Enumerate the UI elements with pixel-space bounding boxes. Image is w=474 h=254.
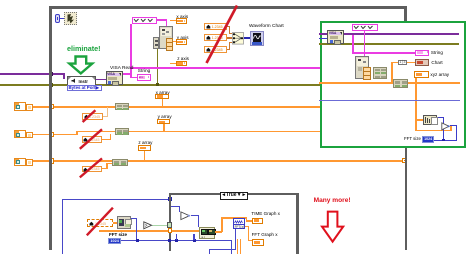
- wire: house block2 to merge: [227, 37, 233, 38]
- node: VISA Read 2 icon: [327, 30, 343, 44]
- wire: orange xyz riser down to FFT: [415, 78, 417, 131]
- label: y array: [158, 115, 172, 120]
- wire: house block3 to merge: [227, 49, 230, 50]
- control terminal: z axis: [176, 61, 187, 67]
- label: TIME Graph x: [251, 212, 280, 217]
- wire: orange stub up to triangle2: [450, 126, 452, 131]
- node: build array row1: [115, 103, 130, 111]
- annotation: red hollow down arrow: [322, 212, 343, 242]
- wire: crossed block row2 stub: [102, 139, 112, 140]
- indicator: TIME Graph x: [252, 218, 264, 225]
- label: String (green box): [431, 51, 443, 56]
- indicator: String 2: [415, 50, 429, 56]
- annotation: red strike line row1: [83, 110, 96, 122]
- node: build waveform 3 (house block): [204, 46, 227, 53]
- node: port number constant: [55, 14, 61, 22]
- while loop top border: [49, 6, 407, 9]
- wire: orange AA to FFT graph: [245, 226, 249, 227]
- node: 1-3-3 converter: [398, 60, 406, 66]
- label: Many more! (red annotation): [314, 197, 351, 204]
- case structure right border: [296, 193, 299, 254]
- wire: x array indicator drop: [162, 99, 164, 106]
- control: left numeric row1 small box: [26, 104, 33, 111]
- wire: z array indicator drop: [144, 150, 146, 160]
- wire: blue AA down: [235, 229, 236, 250]
- label: x axis: [176, 15, 188, 20]
- annotation: red strike line (top axes group): [207, 6, 238, 64]
- wire: orange row3 long run: [33, 160, 403, 162]
- wire: orange horizontal to 133 node: [391, 62, 398, 64]
- node: VISA Configure Serial Port VI icon: [64, 12, 77, 26]
- label: y axis: [177, 36, 189, 41]
- wire: olive error cluster from left edge: [0, 84, 321, 86]
- node: FFT block AA: [233, 218, 245, 229]
- wire: orange under-triangle run: [415, 130, 452, 132]
- crossed control: FFT size (dashed): [87, 219, 113, 227]
- wire: orange crossed-block to sine node: [113, 222, 117, 223]
- control: left numeric row3 small box: [26, 159, 33, 166]
- label: VISA Read: [110, 67, 133, 72]
- wire: cluster to y axis stub: [170, 41, 176, 42]
- node: triangle 2 (scale): [441, 122, 451, 131]
- wire: orange FFT input stub: [415, 119, 424, 121]
- node: spreadsheet-string-to-array x3 (magenta VVV block): [132, 17, 157, 25]
- label: FFT size: [109, 233, 127, 238]
- wire: crossed block row1 stub: [103, 116, 109, 117]
- wire: orange xyz array long horizontal: [319, 82, 460, 84]
- wire: pale green triangle to case tunnel: [152, 225, 168, 226]
- indicator: x array: [155, 94, 169, 100]
- wire: orange bottom long run: [99, 230, 200, 232]
- wire: blue FFT size horizontal: [434, 140, 457, 141]
- constant: FFT size 2: [422, 136, 435, 143]
- indicator: y array: [157, 119, 170, 124]
- wire: magenta horizontal to String2: [352, 52, 417, 54]
- indicator: xyz array 2: [414, 71, 430, 78]
- wire: magenta drop from VVV2: [364, 30, 366, 55]
- node: build waveform 1 (house block): [204, 23, 227, 30]
- label: Chart: [431, 61, 442, 66]
- wire: blue-violet long horizontal: [319, 100, 460, 101]
- wire: magenta trunk to String indicator: [130, 77, 138, 79]
- wire: orange 133 node to Chart2: [407, 62, 415, 64]
- wire: blue from triangle2 out: [450, 125, 457, 126]
- wire: y array indicator drop: [163, 124, 165, 131]
- wire: magenta drop into cluster node: [166, 19, 167, 27]
- wire: orange row2 long run: [76, 131, 320, 133]
- wire: purple VISA resource from left edge: [0, 73, 65, 75]
- wire: magenta VISA Read to trunk: [123, 73, 132, 75]
- wire: blue sine out: [131, 218, 137, 219]
- wire: blue FFT size bus: [121, 240, 232, 241]
- node: VVV2 spreadsheet-string block: [352, 24, 378, 31]
- wire: olive error (inner): [319, 43, 459, 45]
- constant: FFT size: [108, 238, 122, 245]
- wire: orange Z out to riser: [215, 231, 222, 233]
- tunnel: orange on case border: [168, 228, 172, 232]
- control: left numeric row2 icon: [14, 130, 26, 138]
- junction: olive on loop border: [49, 83, 53, 87]
- node: 2x2 array node: [393, 79, 408, 87]
- node: build array row2: [115, 128, 130, 136]
- label: String: [138, 70, 151, 75]
- case structure left border: [169, 193, 172, 252]
- wire: blue triangle Y out: [191, 215, 200, 216]
- junction: purple on loop border: [49, 72, 53, 76]
- node: index pair 2: [373, 67, 387, 79]
- annotation: red strike line row2: [80, 129, 102, 149]
- junction: olive tee: [156, 83, 159, 86]
- wire: blue riser row (inside case): [176, 234, 177, 240]
- control terminal: x axis: [176, 18, 187, 24]
- tunnel: row3 on loop right border: [402, 158, 408, 163]
- case structure top border: [169, 193, 299, 196]
- node: triangle Y (amplifier): [180, 211, 191, 221]
- while loop right border (above green box): [404, 6, 407, 21]
- node: Z processing node: [199, 227, 215, 239]
- blue sequence wire vertical: [62, 199, 63, 254]
- node: unbundle cluster (xyz) main body: [159, 26, 173, 48]
- wire: orange row1 array wire: [33, 106, 321, 108]
- while loop left border: [49, 6, 52, 250]
- green highlight rectangle: [320, 21, 466, 148]
- node: FFT 2: [423, 115, 437, 125]
- wire: merge to waveform chart (dynamic data): [244, 37, 250, 38]
- wire: crossed block row3 stub: [102, 168, 108, 169]
- tunnel: row3 on loop border: [49, 158, 55, 163]
- annotation: red strike line row3: [80, 158, 102, 177]
- wire: blue stub (inner): [319, 38, 327, 39]
- node: VISA Read icon: [106, 71, 123, 84]
- node: merge signals: [232, 32, 244, 44]
- wire: purple VISA resource (inner): [319, 33, 459, 35]
- wire: orange to TIME graph: [221, 217, 247, 219]
- indicator: FFT Graph x: [252, 239, 264, 246]
- wire: house block1 to merge: [227, 26, 230, 27]
- control: left numeric row1 icon: [14, 102, 26, 110]
- wire: blue from case corner to triangle Y: [171, 206, 180, 207]
- blue sequence wire horizontal: [62, 199, 170, 200]
- control (crossed) row3: [82, 166, 103, 173]
- wire: blue vertical to FFT size row: [443, 117, 444, 140]
- indicator: Chart 2: [415, 59, 430, 66]
- node: build waveform 2 (house block): [204, 34, 227, 41]
- node: Bytes at Port property row: [67, 85, 103, 91]
- control (crossed) row1: [82, 113, 103, 120]
- while loop right border (below green box): [405, 147, 408, 250]
- annotation: green hollow down arrow: [69, 57, 92, 74]
- label: FFT size (green box): [404, 137, 421, 141]
- junction: blue dots on bus: [136, 239, 139, 242]
- wire: magenta drop from VISA2: [352, 35, 354, 53]
- junction: blue dot: [442, 139, 445, 142]
- control: left numeric row3 icon: [14, 158, 26, 166]
- wire: magenta drop into unbundle2: [364, 52, 366, 56]
- indicator: z array: [138, 145, 151, 150]
- wire: olive vertical from cluster node: [157, 48, 159, 84]
- wire: orange verticals to bottom: [237, 239, 238, 254]
- wire: VISA property to VISA Read purple: [95, 79, 106, 81]
- wire: blue stub at top-left VI icon: [60, 18, 65, 19]
- wire: blue vertical to fft-size bus: [136, 218, 137, 241]
- label: Waveform Chart: [249, 25, 284, 30]
- control: left numeric row2 small box: [26, 132, 33, 139]
- node: triangle X (multiplier): [143, 221, 153, 230]
- label: FFT Graph x: [252, 233, 278, 238]
- wire: orange riser up: [221, 217, 223, 232]
- wire: blue FFT out: [437, 117, 444, 118]
- tunnel: row1 on loop border: [49, 104, 55, 109]
- wire: blue drop from bus end: [231, 240, 232, 254]
- label: eliminate! (green annotation): [67, 44, 101, 53]
- label: z axis: [177, 57, 189, 62]
- node: build array row3: [112, 159, 128, 166]
- indicator: String: [137, 74, 150, 80]
- wire: blue bottom return: [209, 249, 236, 250]
- tunnel: pale green on case border: [167, 222, 171, 228]
- node: sine waveform VI: [117, 216, 132, 229]
- wire: magenta string vertical trunk: [130, 24, 132, 78]
- label: z array: [138, 141, 152, 146]
- label: xyz array: [430, 73, 449, 78]
- junction: blue dot on case border: [168, 197, 172, 201]
- node: unbundle2: [355, 56, 369, 79]
- wire: purple vertical drop to Bytes-at-Port: [63, 73, 65, 79]
- wire: magenta long horizontal to green box: [132, 67, 321, 69]
- wire: cluster to x axis stub: [170, 20, 176, 21]
- wire: orange row2 segment from control: [33, 134, 79, 136]
- control terminal: y axis: [176, 39, 187, 45]
- control (crossed) row2: [82, 136, 103, 143]
- wire: orange row2 jog: [76, 131, 78, 136]
- node: VISA property node row (Instr): [67, 76, 96, 86]
- indicator: Waveform Chart terminal icon: [250, 31, 264, 46]
- wire: orange riser to chart row: [391, 62, 393, 83]
- node: unbundle cluster left attachment: [153, 37, 158, 48]
- wire: magenta from VVV block right: [157, 19, 168, 20]
- tunnel: row2 on loop border: [49, 132, 55, 137]
- case selector label "True": [220, 192, 249, 199]
- label: x array: [156, 91, 170, 96]
- wire: cluster to z axis stub: [170, 63, 176, 64]
- annotation: red strike line bottom: [87, 208, 113, 236]
